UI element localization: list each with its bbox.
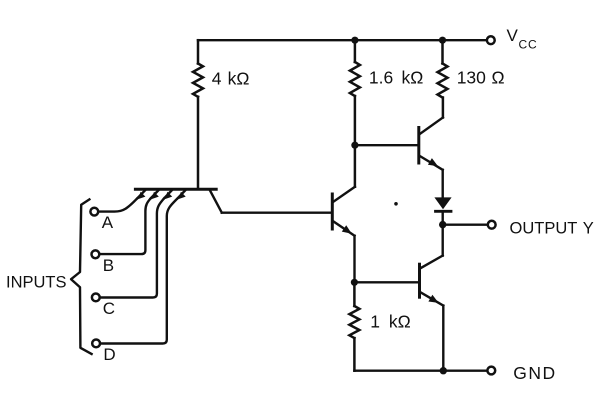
svg-text:A: A [102, 213, 114, 232]
label VCC [507, 26, 538, 52]
input terminal C [92, 294, 100, 302]
svg-text:kΩ: kΩ [389, 312, 411, 332]
svg-text:4: 4 [212, 68, 222, 88]
Q1 emitter 2 [151, 191, 159, 199]
wire GND rail [354, 370, 487, 372]
wire: Q2 emitter down to node [353, 236, 355, 283]
svg-text:Ω: Ω [492, 68, 505, 88]
input terminal B [92, 250, 100, 258]
Q1 emitter 4 [178, 191, 186, 199]
wire: Q1 emitter 2 to input B [100, 198, 151, 254]
transistor Q3 upper output: base bar [417, 128, 420, 164]
svg-text:1.6: 1.6 [369, 67, 393, 87]
junction dot: output node [439, 221, 446, 228]
junction dot: VCC rail / R3 top [439, 37, 446, 44]
label R3 value 130 Ohm [457, 68, 505, 88]
label R4 value 1 kOhm [370, 312, 410, 332]
Q1 emitter 3 [164, 191, 172, 199]
Q3 collector lead [420, 118, 443, 135]
svg-text:Y: Y [583, 219, 594, 237]
svg-text:C: C [103, 299, 115, 318]
svg-text:1: 1 [370, 312, 380, 332]
transistor Q2 phase splitter: base bar [331, 194, 334, 229]
resistor R2 1.6 kOhm [350, 40, 360, 187]
svg-text:OUTPUT: OUTPUT [510, 219, 578, 237]
wire: Q1 emitter 3 to input C [100, 198, 164, 297]
diode D1 [434, 197, 451, 209]
junction dot: Q2 emitter / R4 / Q4 base node [351, 279, 358, 286]
terminal OUTPUT Y [488, 221, 496, 229]
svg-text:GND: GND [513, 363, 556, 383]
terminal VCC [487, 36, 495, 44]
wire: output node down to Q4 collector [442, 225, 444, 256]
wire: diode cathode to output node [442, 211, 444, 224]
svg-text:V: V [507, 26, 519, 45]
svg-text:CC: CC [519, 38, 538, 52]
svg-text:kΩ: kΩ [402, 67, 424, 87]
terminal GND [487, 367, 495, 375]
wire: Q1 emitter 4 to input D [100, 198, 177, 343]
resistor R3 130 Ohm [438, 40, 448, 117]
wire: Q3 emitter to diode anode [442, 170, 444, 198]
transistor Q1 multi-emitter input: base bar [135, 188, 216, 191]
resistor R4 1 kOhm [349, 282, 359, 370]
svg-text:INPUTS: INPUTS [6, 273, 67, 291]
svg-text:D: D [103, 345, 115, 364]
Q4 emitter lead [421, 292, 444, 305]
input terminal D [92, 340, 100, 348]
label R1 value 4 kOhm [212, 68, 250, 88]
junction dot: node between R2 and Q3 base [351, 142, 358, 149]
Q3 emitter lead [420, 156, 443, 170]
resistor R1 4 kOhm [193, 40, 203, 188]
svg-text:B: B [103, 256, 114, 275]
ink speck (scan artifact) [394, 202, 398, 206]
input terminal A [90, 208, 98, 216]
Q2 emitter lead [333, 221, 354, 235]
wire: node to Q3 base [355, 144, 418, 146]
label R2 value 1.6 kOhm [369, 67, 423, 87]
Q1 emitter 1 [137, 191, 145, 199]
brace for INPUTS [71, 199, 92, 354]
wire: Q1 emitter 1 to input A [98, 198, 137, 211]
junction dot: VCC rail / R2 top [351, 37, 358, 44]
label OUTPUT Y [510, 219, 594, 237]
wire: output node to OUTPUT terminal [443, 223, 488, 225]
wire: node to Q4 base [354, 281, 418, 283]
Q1 collector lead [210, 191, 222, 213]
svg-text:kΩ: kΩ [228, 68, 250, 88]
wire: Q1 collector to Q2 base [222, 211, 332, 213]
svg-text:130: 130 [457, 68, 486, 88]
transistor Q4 lower output: base bar [418, 264, 421, 297]
wire: Q4 emitter down to GND rail [442, 306, 444, 371]
Q2 collector lead [333, 187, 355, 202]
Q4 collector lead [421, 256, 443, 269]
wire VCC rail [198, 39, 487, 41]
junction dot: GND rail / Q4 emitter [440, 367, 447, 374]
